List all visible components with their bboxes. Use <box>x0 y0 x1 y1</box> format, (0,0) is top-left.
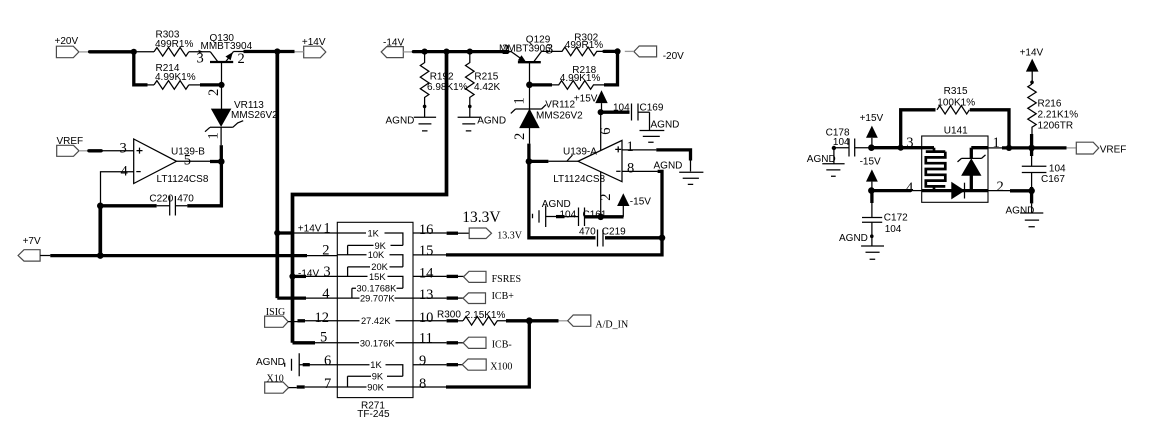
svg-text:AGND: AGND <box>807 154 836 165</box>
svg-text:30.1768K: 30.1768K <box>357 284 398 294</box>
port ICB- <box>463 337 512 351</box>
svg-text:14: 14 <box>419 265 434 281</box>
svg-text:2.15K1%: 2.15K1% <box>465 310 506 321</box>
svg-text:AGND: AGND <box>651 120 680 131</box>
svg-text:AGND: AGND <box>654 160 683 171</box>
svg-text:9K: 9K <box>372 372 384 382</box>
port +20V <box>55 36 90 58</box>
svg-text:MMS26V2: MMS26V2 <box>536 111 583 122</box>
node U139-A output junction <box>526 158 533 165</box>
port VREF right <box>1067 142 1127 155</box>
svg-text:4.99K1%: 4.99K1% <box>560 73 601 84</box>
wire pin1 from +14V rail <box>277 231 292 234</box>
IC U141 box <box>922 126 988 203</box>
svg-text:ICB+: ICB+ <box>492 291 515 302</box>
svg-text:R315: R315 <box>944 86 968 97</box>
svg-text:7: 7 <box>324 376 331 392</box>
svg-text:9: 9 <box>419 353 426 369</box>
zener VR113 MMS26V2 <box>205 85 278 145</box>
wire U139-A V- pin2 <box>600 172 602 217</box>
node +14V rail junction <box>274 48 280 54</box>
wire pin9 to X100 <box>413 364 447 366</box>
svg-text:13.3V: 13.3V <box>462 209 501 226</box>
wire pin8 up to A/D_IN junction <box>413 386 446 388</box>
svg-text:3: 3 <box>323 264 330 280</box>
svg-text:AGND: AGND <box>386 115 415 126</box>
svg-text:4.99K1%: 4.99K1% <box>155 72 196 83</box>
power +15V arrow (U141) <box>860 113 884 148</box>
svg-text:1K: 1K <box>370 360 382 370</box>
port +7V <box>18 236 41 261</box>
svg-text:104: 104 <box>560 209 577 220</box>
capacitor C172 104 <box>862 191 908 246</box>
U141 internal diode <box>952 183 965 199</box>
wire R303 to Q130 base <box>189 51 211 53</box>
node R215 junction <box>467 49 473 55</box>
svg-text:30.176K: 30.176K <box>360 338 395 348</box>
node R192 junction <box>422 49 428 55</box>
svg-text:VR112: VR112 <box>545 100 575 111</box>
svg-text:100K1%: 100K1% <box>937 97 975 108</box>
svg-text:LT1124CS8: LT1124CS8 <box>553 174 605 185</box>
ground AGND U139-A pin1 <box>654 160 704 184</box>
svg-text:1: 1 <box>206 132 222 139</box>
node pin2 bypass junction <box>597 214 604 221</box>
node R216/VREF junction <box>1028 145 1035 152</box>
internal resistor 9K bottom <box>348 372 403 387</box>
svg-text:4: 4 <box>322 286 330 302</box>
svg-text:2: 2 <box>502 42 509 58</box>
node A/D_IN junction <box>526 317 533 324</box>
node +15V junction <box>868 144 875 151</box>
svg-text:1K: 1K <box>368 228 380 238</box>
transistor Q129 MMBT3906 <box>499 35 553 85</box>
svg-text:1: 1 <box>993 135 1000 151</box>
internal resistor 90K <box>337 382 413 392</box>
svg-text:AGND: AGND <box>256 357 285 368</box>
wire R300 to A/D_IN junction <box>506 319 559 322</box>
node -14V branch junction <box>443 49 449 55</box>
capacitor C219 470 <box>529 161 662 246</box>
wire U139-A V+ pin6 <box>600 112 602 151</box>
svg-text:R216: R216 <box>1038 99 1062 110</box>
wire pin13 to ICB+ <box>413 297 447 299</box>
resistor R315 100K1% <box>901 86 1009 148</box>
resistor R192 <box>420 52 467 109</box>
svg-text:2: 2 <box>206 89 222 96</box>
wire pin6 <box>310 364 338 366</box>
ground AGND R215 <box>458 106 507 130</box>
svg-text:ICB-: ICB- <box>492 340 512 351</box>
port 13.3V <box>462 209 522 242</box>
svg-text:3: 3 <box>120 140 127 156</box>
svg-text:8: 8 <box>419 376 426 392</box>
svg-text:-15V: -15V <box>630 197 651 208</box>
resistor R215 <box>466 52 501 109</box>
resistor R216 2.21K1% 1206TR <box>1028 84 1078 134</box>
node +20V junction <box>131 49 137 55</box>
svg-text:2: 2 <box>322 242 329 258</box>
svg-text:U139-A: U139-A <box>563 147 597 158</box>
wire pin3 inside to meander <box>922 146 934 149</box>
node +15V junction <box>598 109 604 115</box>
wire +14V vertical rail <box>275 52 279 299</box>
svg-text:10: 10 <box>419 310 434 326</box>
wire pin3 from -14V rail <box>293 275 307 278</box>
svg-text:VREF: VREF <box>57 136 84 147</box>
svg-text:15K: 15K <box>369 272 386 282</box>
wire pin1 to VREF junctions <box>971 146 988 149</box>
svg-text:27.42K: 27.42K <box>361 316 391 326</box>
wire pin14 to FSRES <box>413 275 447 277</box>
wire VREF to op-amp +in <box>89 149 101 152</box>
node R315 right junction <box>1006 145 1012 151</box>
svg-text:104: 104 <box>885 224 902 235</box>
svg-text:-14V: -14V <box>383 37 404 48</box>
resistor R218 <box>552 65 604 89</box>
svg-text:C167: C167 <box>1041 174 1065 185</box>
wire +7V long rail to resnet pin2 <box>40 255 50 257</box>
svg-text:VREF: VREF <box>1100 144 1127 155</box>
svg-text:X100: X100 <box>490 361 512 372</box>
svg-text:AGND: AGND <box>1006 205 1035 216</box>
svg-text:2: 2 <box>512 133 528 140</box>
wire -15V to U141 pin4 <box>871 189 911 192</box>
svg-text:3: 3 <box>906 135 913 151</box>
node resnet pin3 junction <box>289 273 295 279</box>
svg-text:8: 8 <box>627 161 634 177</box>
svg-text:16: 16 <box>419 222 434 238</box>
wire-end arrow at Q130 <box>198 50 204 54</box>
svg-text:29.707K: 29.707K <box>360 294 395 304</box>
resistor R303 <box>154 30 193 57</box>
svg-text:1: 1 <box>323 221 330 237</box>
port FSRES <box>464 271 522 285</box>
wire X10 to pin7 <box>289 387 297 389</box>
wire junction to R303 <box>134 51 154 53</box>
wire U139-A output to junction <box>548 160 578 162</box>
wire Q130 emitter to +14V rail <box>244 50 295 53</box>
svg-text:3: 3 <box>546 41 553 57</box>
wire op-amp output to junction <box>177 160 211 162</box>
svg-text:4.42K: 4.42K <box>474 82 500 93</box>
wire pin16 to 13.3V port <box>413 232 447 234</box>
svg-text:+7V: +7V <box>23 236 41 247</box>
wire ISIG to pin12 <box>288 321 297 323</box>
wire R214 to VR113 junction <box>189 84 200 86</box>
op-amp U139-B LT1124CS8 <box>120 139 209 185</box>
svg-text:MMS26V2: MMS26V2 <box>231 110 278 121</box>
svg-text:2: 2 <box>238 51 245 67</box>
svg-text:LT1124CS8: LT1124CS8 <box>157 174 209 185</box>
wire pin2 to AGND <box>988 190 1010 192</box>
ground AGND C167 <box>1006 187 1044 227</box>
internal resistor 1K bottom <box>337 360 403 376</box>
internal resistor 10K <box>337 250 403 267</box>
wire R218 to VR112 junction <box>530 83 553 86</box>
capacitor C161 104 (op-amp V- bypass) <box>556 208 607 227</box>
svg-text:6: 6 <box>324 353 331 369</box>
port -14V <box>381 37 413 57</box>
svg-text:15: 15 <box>419 243 434 259</box>
svg-text:13.3V: 13.3V <box>497 230 523 241</box>
zener VR112 MMS26V2 <box>511 85 583 144</box>
port X10 <box>265 373 289 393</box>
internal resistor 20K <box>348 262 403 276</box>
svg-text:-20V: -20V <box>663 51 684 62</box>
svg-text:+14V: +14V <box>1020 47 1044 58</box>
node C167/pin2 junction <box>1028 188 1035 195</box>
svg-text:R300: R300 <box>437 310 461 321</box>
node op-amp output junction <box>218 158 225 165</box>
node +7V junction <box>97 252 104 259</box>
wire -20V branch down to R218 <box>604 51 618 85</box>
power -15V arrow (U141) <box>860 157 881 191</box>
resistor R300 2.15K1% <box>437 310 506 326</box>
wire VR113 to output junction <box>220 145 223 161</box>
port +14V <box>295 37 326 58</box>
ground AGND C172 <box>839 233 884 259</box>
svg-text:AGND: AGND <box>477 115 506 126</box>
wire R302 to -20V junction <box>604 50 618 53</box>
svg-text:5: 5 <box>320 329 327 345</box>
wire pin4 from +14V rail turn <box>277 296 306 299</box>
op-amp U139-A LT1124CS8 <box>553 128 634 201</box>
wire pin5 from -14V rail turn <box>293 341 316 344</box>
svg-text:90K: 90K <box>367 382 384 392</box>
node rail to resnet pin1 <box>274 230 280 236</box>
port A/D_IN <box>559 315 629 331</box>
port ISIG <box>265 307 289 328</box>
svg-text:2: 2 <box>997 179 1004 195</box>
ground AGND rotated (pin6) <box>256 353 310 376</box>
transistor Q130 MMBT3904 <box>197 33 253 85</box>
wire pin8 -in feedback down <box>622 170 658 172</box>
svg-text:+20V: +20V <box>55 36 79 47</box>
wire -14V feed rail down-left to resnet <box>293 52 447 343</box>
svg-text:R215: R215 <box>474 71 498 82</box>
internal resistor 30.1768K <box>352 284 403 299</box>
capacitor C169 104 <box>601 103 664 121</box>
svg-text:13: 13 <box>419 287 434 303</box>
svg-text:-14V: -14V <box>298 268 319 279</box>
internal resistor 30.176K <box>337 338 413 348</box>
wire -14V rail <box>413 50 508 53</box>
svg-text:20K: 20K <box>371 262 388 272</box>
svg-text:-15V: -15V <box>860 157 881 168</box>
svg-text:470: 470 <box>579 227 596 238</box>
node feedback junction <box>97 203 104 210</box>
ground AGND rotated (C161) <box>533 199 571 227</box>
wire -in feedback <box>101 172 134 204</box>
svg-text:1: 1 <box>627 139 634 155</box>
svg-text:X10: X10 <box>267 373 284 384</box>
wire pin1 +in to AGND <box>622 149 656 151</box>
capacitor C178 104 <box>826 128 871 157</box>
svg-text:1: 1 <box>512 97 528 104</box>
wire R216 to VREF junction <box>1030 134 1033 156</box>
wire pin11 to ICB- <box>413 342 447 344</box>
svg-text:TF-245: TF-245 <box>357 409 390 420</box>
svg-text:499R1%: 499R1% <box>155 39 193 50</box>
svg-text:+14V: +14V <box>302 37 326 48</box>
ground AGND C169 <box>640 112 680 142</box>
svg-text:104: 104 <box>613 103 630 114</box>
svg-text:FSRES: FSRES <box>492 274 521 285</box>
svg-text:C220: C220 <box>149 194 173 205</box>
internal resistor 15K <box>337 272 403 288</box>
internal resistor 29.707K <box>337 294 413 304</box>
svg-text:1206TR: 1206TR <box>1038 120 1074 131</box>
svg-text:470: 470 <box>177 194 194 205</box>
svg-text:104: 104 <box>1049 163 1066 174</box>
node VR113 top junction <box>218 82 224 88</box>
wire +20V branch down to R214 <box>134 52 148 85</box>
port VREF left <box>57 136 89 156</box>
capacitor C220 470 <box>100 162 221 216</box>
capacitor C167 104 <box>1022 156 1066 187</box>
node C219 junction <box>659 235 666 242</box>
svg-text:U141: U141 <box>944 126 968 137</box>
node VR112 top junction <box>526 82 533 89</box>
svg-text:AGND: AGND <box>542 199 571 210</box>
internal resistor 1K top <box>337 228 403 245</box>
svg-text:12: 12 <box>315 310 330 326</box>
node -20V junction <box>614 48 620 54</box>
svg-text:R192: R192 <box>430 71 454 82</box>
U141 internal zener <box>958 148 986 191</box>
resistor R214 <box>148 63 196 89</box>
wire +15V to U141 pin3 <box>871 146 921 149</box>
power +14V arrow (R216) <box>1020 47 1044 84</box>
svg-text:499R1%: 499R1% <box>565 40 603 51</box>
wire feedback to resnet pin15 <box>446 238 662 255</box>
port X100 <box>462 359 512 372</box>
port -20V <box>625 46 684 62</box>
ground AGND C178 <box>807 148 845 176</box>
svg-text:+15V: +15V <box>574 94 598 105</box>
svg-text:ISIG: ISIG <box>266 307 285 318</box>
svg-text:104: 104 <box>833 137 850 148</box>
wire +20V to junction <box>90 50 134 53</box>
svg-text:2.21K1%: 2.21K1% <box>1038 110 1079 121</box>
svg-text:4: 4 <box>906 180 914 196</box>
svg-text:5: 5 <box>184 153 191 169</box>
node -15V junction <box>868 187 875 194</box>
wire pin10 to R300 <box>413 320 447 322</box>
svg-text:C172: C172 <box>884 212 908 223</box>
port ICB+ <box>463 291 514 304</box>
power -15V arrow (op-amp V-) <box>601 193 652 217</box>
resistor network R271 TF-245 box <box>337 222 413 419</box>
internal resistor 27.42K <box>337 316 413 326</box>
ground AGND R192 <box>386 106 437 130</box>
svg-text:A/D_IN: A/D_IN <box>595 320 628 331</box>
svg-text:+15V: +15V <box>860 113 884 124</box>
svg-text:AGND: AGND <box>839 233 868 244</box>
svg-text:C219: C219 <box>602 227 626 238</box>
wire pin4 row through box <box>922 189 988 192</box>
resistor R302 <box>551 33 604 56</box>
svg-text:C169: C169 <box>640 103 664 114</box>
wire VR112 to output junction <box>527 144 530 162</box>
svg-text:10K: 10K <box>368 250 385 260</box>
internal resistor 9K top <box>348 241 403 255</box>
wire feedback junction down to +7V rail <box>98 206 102 256</box>
svg-text:11: 11 <box>419 330 433 346</box>
U141 internal resistor meander <box>926 148 946 191</box>
power +15V arrow <box>574 90 608 112</box>
node R315 left junction <box>898 145 904 151</box>
svg-text:3: 3 <box>197 50 204 66</box>
svg-text:+14V: +14V <box>298 224 322 235</box>
